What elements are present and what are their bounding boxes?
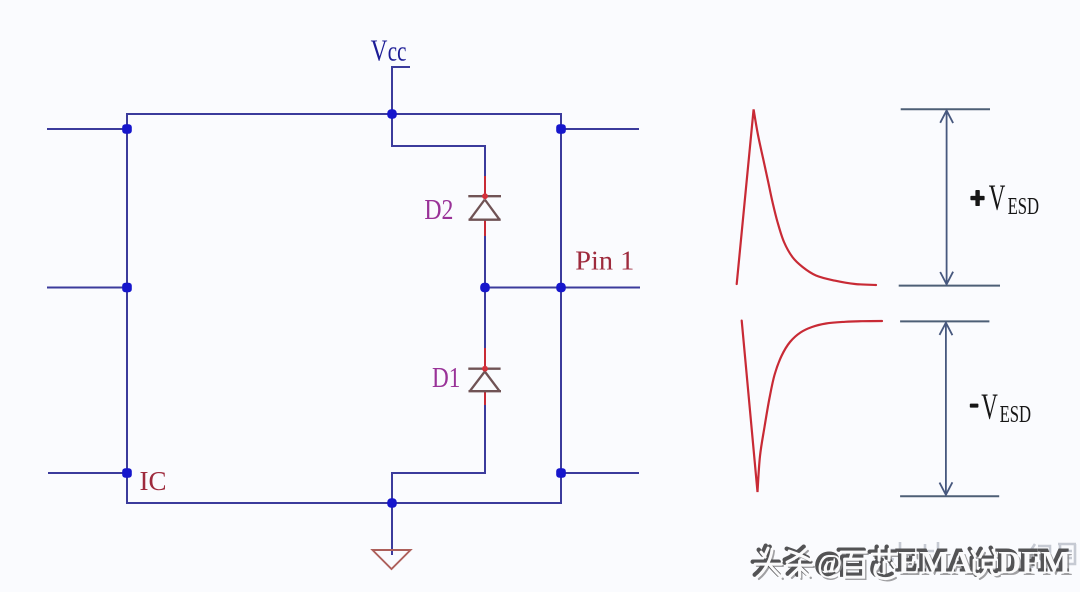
svg-text:IC: IC [140, 466, 167, 496]
svg-text:ESD: ESD [1000, 400, 1031, 428]
svg-text:D2: D2 [424, 193, 453, 226]
svg-text:D1: D1 [432, 362, 460, 394]
svg-text:Vcc: Vcc [371, 33, 407, 67]
svg-text:ESD: ESD [1008, 192, 1039, 220]
svg-text:Pin 1: Pin 1 [575, 246, 634, 277]
svg-text:V: V [989, 178, 1006, 219]
svg-text:V: V [981, 386, 998, 427]
